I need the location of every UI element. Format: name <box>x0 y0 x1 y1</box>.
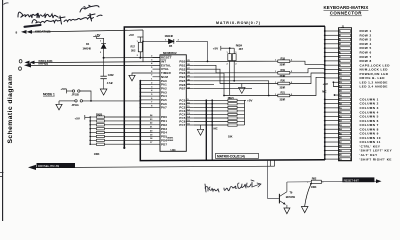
junction D4/RESET <box>103 57 105 59</box>
svg-text:2K2: 2K2 <box>131 48 136 52</box>
svg-text:RESET-INIT: RESET-INIT <box>344 178 360 182</box>
svg-text:C302: C302 <box>108 73 114 77</box>
label MATRIX-COL(0:14) <box>216 153 259 158</box>
bus MATRIX-COL bottom <box>140 81 325 161</box>
power +5V feed LED anode pins <box>323 82 340 87</box>
resistor R21 330R <box>278 77 325 101</box>
label DRVSEL inverse <box>37 163 76 168</box>
bus PC column A <box>205 100 207 160</box>
bus PC column B <box>211 100 213 160</box>
wire PB4 row <box>194 76 311 78</box>
wire PB3 jog to R21 <box>194 73 230 95</box>
resistor R82 100K <box>307 177 324 189</box>
resistor network RN21 10K <box>228 96 245 138</box>
svg-text:4K7: 4K7 <box>239 47 244 51</box>
junction KBDATA/D5 loop <box>142 41 144 43</box>
svg-text:330R: 330R <box>280 63 286 67</box>
power +5V (R63/4) <box>213 46 234 51</box>
node DRVSEL entry arrow <box>28 165 36 170</box>
wire DRVSEL <box>36 166 275 167</box>
pin numbers U4 left <box>150 55 153 144</box>
wire PB1 jog to R19 <box>194 65 278 73</box>
node KBCLK arrows <box>25 61 35 65</box>
resistor R20 330R <box>278 73 325 89</box>
wire N/C pin16 <box>335 94 340 96</box>
junction dots PD rows at buses <box>123 116 141 145</box>
pin numbers U4 right PB <box>187 60 190 89</box>
svg-text:'SHIFT RIGHT' KE: 'SHIFT RIGHT' KE <box>360 157 392 161</box>
resistor R17 2K2 <box>131 42 143 57</box>
wire PB7 row <box>194 88 252 90</box>
transistor T9 BC547B <box>279 182 295 208</box>
wire PB2 jog to R20 <box>194 69 242 83</box>
svg-text:R21: R21 <box>281 91 286 95</box>
diode D5 1N4148 <box>165 34 174 48</box>
svg-text:100K: 100K <box>94 152 100 156</box>
wire DRVSEL risers to bus <box>270 160 274 166</box>
junction D5/PB0 <box>207 61 209 63</box>
scan ticks left edge <box>0 173 4 177</box>
svg-text:PD7: PD7 <box>161 142 167 146</box>
power +5V (RN21) <box>245 99 254 103</box>
wire KBDATA drop to INT <box>142 30 144 62</box>
diode D4 1N4148 <box>83 42 107 58</box>
label RESET-INIT inverse <box>342 177 374 182</box>
svg-text:PA7: PA7 <box>161 106 167 110</box>
pins U4 right PB <box>186 61 194 88</box>
wires PC pins to RN21 <box>194 100 228 125</box>
wire PB6 row <box>194 84 214 86</box>
power +5V (RN20) <box>75 115 91 120</box>
scan speck top-left <box>4 3 9 5</box>
svg-text:330R: 330R <box>280 85 286 89</box>
title KEYBOARD-MATRIX CONNECTOR <box>324 5 369 15</box>
junction R63 top <box>229 47 231 49</box>
svg-text:4.7uF: 4.7uF <box>107 81 114 85</box>
power +5V (R17) <box>129 33 144 42</box>
ground at T9 emitter <box>284 208 290 214</box>
bus MATRIX-ROW top <box>124 26 325 148</box>
wire RESET-INIT <box>287 180 379 183</box>
wires PA pins to bus <box>140 81 152 108</box>
svg-text:MC6805U2: MC6805U2 <box>163 51 177 55</box>
handwritten annotation "Ansatzpunkt für cablose Tastatur" <box>18 5 102 27</box>
pins U4 right PC <box>186 100 194 125</box>
svg-text:N/C: N/C <box>322 90 326 94</box>
power +5V (D4) <box>93 33 103 44</box>
svg-text:R19: R19 <box>281 68 286 72</box>
svg-text:KEYBOARD-MATRIX: KEYBOARD-MATRIX <box>324 5 369 10</box>
pin digits D5 <box>165 40 179 42</box>
switch reset to ground <box>301 184 311 213</box>
junction dots connector bus <box>324 30 326 160</box>
svg-text:R63/4: R63/4 <box>236 43 243 47</box>
wire RN20 common rail <box>89 117 91 144</box>
wire KBDATA <box>32 30 143 32</box>
junction switch/reset line <box>310 183 312 185</box>
op IC U4 MC6805U2 box <box>160 55 186 152</box>
svg-text:R17: R17 <box>131 45 136 49</box>
junction R64/PB5 <box>233 80 235 82</box>
svg-text:MR4(5): MR4(5) <box>38 62 48 66</box>
junction PB3/R21 row <box>223 95 225 97</box>
node MR4 arrow <box>24 63 31 67</box>
pin numbers U4 right PC <box>187 99 190 126</box>
junction dots PA rows <box>139 80 141 109</box>
handwritten annotation "Hard ware Reset" <box>205 180 261 192</box>
junction +5V anode <box>333 81 335 83</box>
svg-text:330R: 330R <box>280 74 286 78</box>
power +5V (jumpers) <box>61 87 73 93</box>
svg-text:U44: U44 <box>171 148 176 152</box>
svg-text:VSSH1: VSSH1 <box>167 137 175 139</box>
pin labels U4 right PC <box>179 98 185 127</box>
svg-text:N/C: N/C <box>214 127 218 131</box>
svg-text:MATRIX-COL(0:14): MATRIX-COL(0:14) <box>217 155 245 159</box>
junction bus left bottom <box>123 147 125 149</box>
wire RESET net <box>104 57 160 59</box>
resistor R19 330R <box>278 68 325 78</box>
pin digits D4 <box>100 41 102 55</box>
svg-text:10K: 10K <box>228 134 233 138</box>
resistor network RN20 100K <box>90 112 104 155</box>
node KBCLK circle <box>19 60 22 63</box>
resistor R63/4 4K7 <box>228 43 244 95</box>
node MR4 circle <box>19 67 22 70</box>
svg-text:BC547B: BC547B <box>286 195 295 199</box>
ground below C302 <box>100 89 107 95</box>
wire PB5 jog <box>194 81 269 96</box>
wires connector pins from bus <box>325 31 340 159</box>
pin labels U4 left <box>161 56 172 147</box>
svg-text:MODE 1: MODE 1 <box>43 92 55 96</box>
wire D5 loop top <box>143 41 208 61</box>
junction dots RN20 rail <box>89 116 91 145</box>
ground on R20 row <box>239 84 278 94</box>
ground at JP11A <box>56 104 62 110</box>
wire JP11A left to ground <box>58 101 60 104</box>
svg-text:R20: R20 <box>281 79 286 83</box>
junction dots PC rows <box>205 99 213 126</box>
node RESET-INIT arrow <box>376 179 382 183</box>
svg-text:JP11B: JP11B <box>72 93 79 97</box>
junction PB5/R21 row <box>268 95 270 97</box>
svg-text:R82: R82 <box>312 177 317 181</box>
svg-text:330R: 330R <box>280 97 286 101</box>
wire R21 row <box>230 95 278 97</box>
svg-text:100K: 100K <box>311 185 317 189</box>
svg-text:CONNECTOR: CONNECTOR <box>330 11 362 16</box>
svg-text:MATRIX-ROW(0:7): MATRIX-ROW(0:7) <box>216 21 261 25</box>
connector J1 pin numbers <box>340 31 343 161</box>
wire TIMER to ground <box>132 73 153 75</box>
svg-text:1N4148: 1N4148 <box>83 47 92 51</box>
junction JP11B/JP11A <box>90 100 92 102</box>
svg-text:1N4148: 1N4148 <box>165 34 174 38</box>
jumper JP11A <box>59 100 140 107</box>
scan edge line <box>2 0 4 221</box>
junction JP11A/bus <box>139 100 141 102</box>
pins U4 left group <box>153 58 161 145</box>
pin digits R17 <box>137 41 139 57</box>
capacitor C302 4.7uF <box>100 58 114 89</box>
connector J1 pin slots <box>339 30 350 161</box>
svg-text:LED 3,4 ANODE: LED 3,4 ANODE <box>360 85 388 89</box>
labels connector signals <box>360 29 393 161</box>
pin digits R63/4 <box>227 52 238 66</box>
wire MR4 to EXTAL <box>31 64 160 66</box>
connector J1 box <box>339 28 352 161</box>
bus connector vertical <box>324 26 326 160</box>
junction R17/RESET <box>139 57 141 59</box>
wires RN20 to PD pins <box>104 117 152 144</box>
ground at TIMER <box>129 75 135 81</box>
svg-text:Schematic diagram: Schematic diagram <box>7 75 14 144</box>
node KBDATA(3) entry arrows <box>16 30 33 34</box>
pin labels U4 right PB <box>179 60 185 91</box>
wire bus to T9 base <box>268 160 279 198</box>
ground below PC7 <box>197 125 203 135</box>
svg-text:JP11A: JP11A <box>72 103 79 107</box>
wire PB0 row to R18 <box>194 60 278 62</box>
svg-text:PC7: PC7 <box>179 123 185 127</box>
svg-text:PB7: PB7 <box>179 87 185 91</box>
svg-text:R18: R18 <box>281 56 286 60</box>
jumper JP11B <box>72 90 92 101</box>
resistor R18 330R <box>278 56 325 66</box>
pin digits R18-R21 <box>275 60 293 96</box>
svg-text:VSSH2: VSSH2 <box>167 140 175 142</box>
wire KBCLK to INT <box>34 62 160 63</box>
